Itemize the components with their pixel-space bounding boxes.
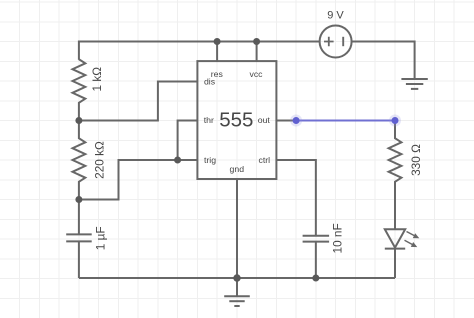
wire: ctrl to 10nF column — [276, 160, 315, 236]
svg-text:vcc: vcc — [249, 69, 263, 79]
capacitor C2 10 nF — [303, 236, 330, 278]
resistor R2 220 kOhm — [73, 121, 86, 200]
node: rail/vcc junction — [253, 38, 260, 45]
svg-text:10 nF: 10 nF — [330, 223, 344, 253]
node: C2/rail junction — [312, 275, 319, 282]
wire: bottom rail — [79, 277, 395, 279]
svg-text:thr: thr — [204, 115, 214, 125]
wire: trig wire from lower node — [79, 160, 197, 200]
svg-text:gnd: gnd — [230, 164, 245, 174]
wire: res pin to rail — [216, 42, 218, 62]
IC U1 555 timer — [197, 61, 276, 179]
svg-text:555: 555 — [219, 109, 253, 132]
svg-text:trig: trig — [204, 155, 216, 165]
wire: out net (selected, blue) — [296, 120, 395, 122]
node: R2/C1/trig junction — [75, 196, 82, 203]
wire: gnd pin down to rail — [236, 179, 238, 278]
node: out net endpoint at 555 — [290, 115, 302, 127]
node: rail/res junction — [214, 38, 221, 45]
svg-text:1 µF: 1 µF — [93, 226, 107, 250]
svg-text:1 kΩ: 1 kΩ — [90, 67, 104, 92]
svg-text:out: out — [258, 115, 271, 125]
svg-text:220 kΩ: 220 kΩ — [93, 141, 107, 179]
voltage source V1 — [320, 26, 352, 58]
node: R1/R2/dis junction — [75, 117, 82, 124]
wire: out pin stub — [276, 120, 296, 122]
wire: top rail right segment to ground — [352, 42, 415, 80]
LED D1 — [385, 229, 420, 278]
wire: R1/R2 node to dis elbow — [79, 82, 197, 121]
svg-text:330 Ω: 330 Ω — [409, 144, 423, 176]
wire: top rail left segment — [79, 42, 320, 60]
wire: thr elbow down to trig line — [178, 121, 198, 161]
ground GND2 (right, at supply) — [401, 79, 427, 89]
node: thr/trig junction — [174, 157, 181, 164]
node: out net endpoint at R3 — [389, 115, 401, 127]
capacitor C1 1 uF — [66, 200, 92, 279]
svg-text:ctrl: ctrl — [259, 155, 271, 165]
svg-text:9 V: 9 V — [327, 10, 344, 22]
svg-text:dis: dis — [204, 76, 216, 86]
node: gnd/rail junction — [233, 274, 240, 281]
ground GND1 (bottom center) — [224, 278, 250, 306]
resistor R1 1 kOhm — [73, 59, 86, 120]
resistor R3 330 Ohm — [389, 121, 402, 230]
wire: vcc pin to rail — [256, 42, 258, 62]
